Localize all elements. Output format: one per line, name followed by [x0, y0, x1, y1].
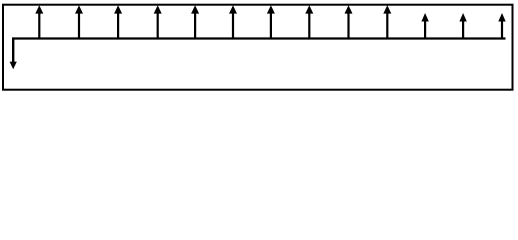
load arrow 11 (upward, short) [421, 13, 428, 39]
load arrow 6 (upward, tall) [229, 5, 237, 38]
load arrow 3 (upward, tall) [114, 5, 122, 38]
load arrow 4 (upward, tall) [154, 5, 162, 38]
load arrow 9 (upward, tall) [345, 5, 353, 38]
load arrow 7 (upward, tall) [267, 5, 275, 38]
load arrow 2 (upward, tall) [75, 5, 83, 38]
load arrow 5 (upward, tall) [191, 5, 199, 38]
load arrow 1 (upward, tall) [35, 5, 43, 38]
reaction arrow (downward) at left end [10, 38, 17, 70]
load arrow 10 (upward, tall) [383, 5, 391, 38]
load arrow 8 (upward, tall) [305, 5, 313, 38]
load arrow 12 (upward, short) [459, 13, 466, 39]
beam line (loaded member) [12, 37, 506, 39]
load arrow 13 (upward, short) [498, 13, 505, 39]
